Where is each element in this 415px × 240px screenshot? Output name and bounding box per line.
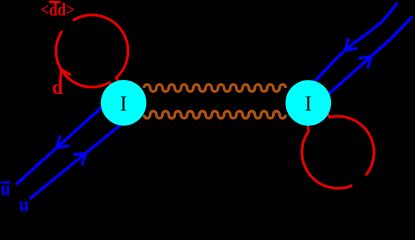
u-bar quark line (upper-left, incoming antiquark) xyxy=(16,100,110,185)
arrowhead on upper-right line xyxy=(345,38,358,51)
instanton vertex I (right) xyxy=(286,80,332,126)
arrowhead on lower-right line xyxy=(358,56,371,69)
u-bar quark loop (bottom-right), top/right arc xyxy=(325,110,374,175)
d-quark condensate loop (top-left), right/top arc xyxy=(73,15,128,84)
gluon propagator (bottom wavy line) xyxy=(144,111,286,118)
overbar of u-bar label xyxy=(1,181,11,183)
arrowhead on d loop xyxy=(61,69,71,80)
u quark line (lower-right, outgoing) xyxy=(326,17,413,97)
gluon propagator (top wavy line) xyxy=(144,85,286,92)
arrowhead on u line xyxy=(73,153,86,165)
u quark line (lower-left, incoming quark) xyxy=(30,122,125,199)
d-quark condensate loop (top-left), left/bottom arc xyxy=(56,31,115,90)
overbar of first d in condensate label xyxy=(49,1,61,3)
u-bar quark loop (bottom-right), bottom/left arc xyxy=(302,121,352,188)
svg-text:I: I xyxy=(305,92,312,116)
svg-text:I: I xyxy=(120,92,127,116)
u-bar quark line (upper-right, outgoing) xyxy=(312,3,398,84)
instanton vertex I (left) xyxy=(101,80,147,126)
svg-text:u: u xyxy=(19,194,29,212)
arrowhead on u-bar line xyxy=(57,135,70,148)
svg-text:d: d xyxy=(52,75,63,99)
